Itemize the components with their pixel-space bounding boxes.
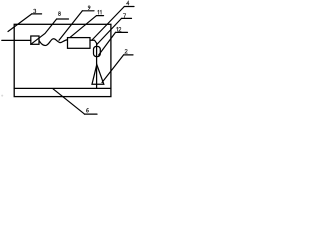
ref numeral 4: [127, 1, 129, 5]
inlet pipe stub: [2, 39, 31, 41]
label 4 underline: [124, 6, 134, 8]
faint smudge: [1, 95, 3, 97]
leader 12: [99, 32, 116, 55]
leader 4: [92, 7, 124, 41]
ref numeral 12: [117, 27, 121, 31]
flexible hose squiggle: [39, 39, 68, 46]
spray cone triangle: [92, 65, 104, 85]
leader 9: [59, 11, 82, 41]
wire elbow to nozzle: [90, 40, 97, 43]
ref numeral 8: [59, 12, 61, 16]
ref numeral 2: [125, 49, 127, 53]
nozzle stem: [96, 43, 98, 88]
valve box: [31, 36, 39, 44]
leader 6: [53, 89, 85, 114]
ref numeral 11: [98, 10, 101, 14]
tank housing outline: [14, 24, 111, 96]
leader 11: [70, 16, 97, 38]
ref numeral 9: [88, 6, 90, 10]
label 7 underline: [122, 17, 132, 19]
leader 2: [102, 55, 124, 83]
label 3 underline: [32, 13, 42, 15]
nozzle holder capsule: [94, 46, 101, 56]
label 12 underline: [116, 31, 128, 33]
inner bottom wall line: [14, 87, 111, 89]
leader 3: [8, 14, 32, 32]
label 11 underline: [97, 15, 104, 17]
valve diagonal / leader 8: [31, 19, 57, 44]
label 8 underline: [57, 18, 69, 20]
pump rectangle: [68, 38, 91, 49]
ref numeral 3: [34, 9, 36, 13]
label 6 underline: [85, 113, 98, 115]
label 2 underline: [124, 54, 133, 56]
label 9 underline: [82, 10, 94, 12]
leader 7: [97, 18, 122, 44]
ref numeral 6: [87, 108, 89, 112]
ref numeral 7: [123, 14, 125, 18]
